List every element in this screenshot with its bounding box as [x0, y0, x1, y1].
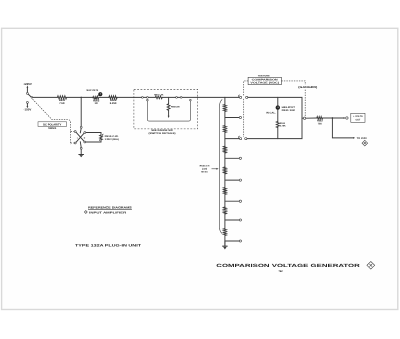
svg-text:(GANGED): (GANGED) — [298, 86, 317, 89]
svg-text:VOLTAGE (VDC): VOLTAGE (VDC) — [250, 82, 279, 85]
svg-text:R511 10K: R511 10K — [282, 109, 296, 112]
label DC POLARITY SW504 — [38, 122, 67, 130]
svg-text:OUT: OUT — [355, 119, 360, 122]
title diamond — [367, 262, 375, 270]
svg-text:R508 20K: R508 20K — [171, 106, 180, 109]
switch SW504 reversing section — [74, 126, 86, 149]
node -150V supply — [24, 103, 32, 111]
wire to R513 — [306, 117, 317, 119]
resistor R508 wiper — [167, 97, 180, 118]
wire branch to J103 — [332, 118, 353, 138]
wire down to reversing switch — [80, 97, 82, 126]
svg-text:+: + — [83, 136, 85, 140]
switch SW504 polarity contacts — [26, 92, 32, 103]
wire helipot branch — [277, 97, 279, 138]
wire — [162, 96, 198, 98]
resistor R513 — [317, 117, 323, 126]
svg-text:(x10): (x10) — [202, 168, 207, 171]
resistor R512 — [276, 121, 286, 127]
svg-text:6.25K: 6.25K — [110, 102, 117, 105]
svg-text:TEN TURN: TEN TURN — [258, 74, 270, 77]
wire — [99, 96, 109, 98]
wiper contact top — [225, 95, 248, 99]
resistor R507 — [154, 94, 164, 99]
wiper contact tap3 — [225, 136, 247, 140]
wire main bus from switch to R504 — [33, 96, 58, 98]
svg-text:R507 1.5K: R507 1.5K — [154, 94, 164, 97]
ground at divider bottom — [223, 241, 228, 250]
linkage dashed SW504 — [33, 99, 71, 144]
svg-text:R510 A-H: R510 A-H — [200, 165, 210, 168]
svg-text:INPUT AMPLIFIER: INPUT AMPLIFIER — [89, 210, 126, 214]
output wiper contact — [302, 117, 303, 119]
ganged dashed right — [281, 81, 305, 85]
tap contact 8 — [225, 240, 242, 242]
svg-text:1 REV (BAL): 1 REV (BAL) — [105, 138, 120, 141]
wire into range switch detail — [117, 96, 141, 98]
wire through detail box — [142, 96, 156, 98]
switch contacts — [142, 97, 144, 99]
svg-text:1K: 1K — [95, 102, 98, 105]
svg-text:R512: R512 — [280, 122, 286, 125]
resistor R515 balance — [99, 134, 119, 141]
knob R511 helipot — [266, 105, 296, 114]
switch contacts — [176, 97, 178, 99]
note REFERENCE DIAGRAMS — [84, 206, 131, 215]
tap contact 5 — [225, 179, 242, 181]
svg-text:+ VOLTS: + VOLTS — [353, 115, 363, 118]
wire to output jack — [323, 117, 345, 119]
svg-text:R515 C.W.: R515 C.W. — [105, 135, 119, 138]
range switch detail dashed box — [134, 89, 198, 129]
svg-text:DC POLARITY: DC POLARITY — [43, 123, 61, 126]
svg-text:3.75K: 3.75K — [280, 125, 286, 128]
label + VOLTS OUT — [351, 113, 365, 122]
svg-text:5K EA: 5K EA — [201, 170, 208, 173]
svg-text:+225V: +225V — [23, 82, 32, 86]
svg-text:HELIPOT: HELIPOT — [282, 106, 296, 109]
helipot section frame — [247, 97, 302, 138]
svg-text:(SWITCH DETAILS): (SWITCH DETAILS) — [149, 132, 176, 135]
svg-text:R513: R513 — [317, 120, 323, 123]
tap contact 4 — [225, 157, 242, 159]
wiper travel arc — [219, 99, 222, 233]
svg-text:MAX VOLTS: MAX VOLTS — [87, 89, 99, 92]
title COMPARISON VOLTAGE GENERATOR — [216, 263, 361, 273]
junction node — [80, 97, 82, 99]
wire — [67, 96, 93, 98]
coarse element frame — [147, 101, 190, 121]
node +225V supply — [23, 82, 32, 92]
diagram reference diamond — [362, 140, 368, 146]
junction — [332, 117, 334, 119]
divider chain R510 — [223, 97, 226, 245]
resistor R504 — [57, 96, 66, 105]
svg-text:TYPE 132A PLUG-IN UNIT: TYPE 132A PLUG-IN UNIT — [75, 244, 142, 248]
svg-text:IN CAL.: IN CAL. — [266, 112, 276, 115]
wire bus into divider — [198, 96, 225, 98]
svg-text:7.5K: 7.5K — [59, 102, 65, 105]
svg-text:75K: 75K — [318, 123, 323, 126]
dial label COMPARISON VOLTAGE — [248, 74, 281, 84]
resistor R505 MAX VOLTS pot — [87, 89, 103, 105]
svg-text:REFERENCE DIAGRAMS: REFERENCE DIAGRAMS — [88, 206, 132, 210]
ground under reversing switch — [79, 149, 84, 157]
tap contact 2 — [225, 116, 242, 118]
label R510 string — [200, 165, 219, 174]
svg-text:SW504: SW504 — [48, 127, 57, 130]
svg-text:762: 762 — [279, 270, 284, 273]
svg-text:COMPARISON VOLTAGE GENERATOR: COMPARISON VOLTAGE GENERATOR — [216, 263, 361, 268]
tap contact 7 — [225, 219, 242, 221]
note switch details — [149, 129, 176, 135]
ganged dashed left — [244, 81, 248, 96]
tap contact 6 — [225, 200, 242, 202]
meter loop wires — [86, 133, 101, 136]
resistor R506 — [109, 96, 117, 105]
svg-text:TO J103: TO J103 — [357, 137, 368, 140]
